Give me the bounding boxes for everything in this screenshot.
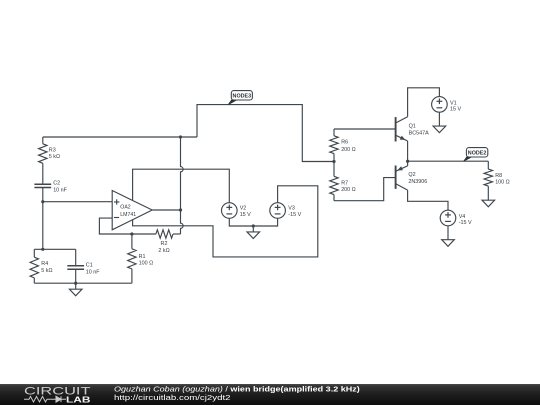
svg-text:100 Ω: 100 Ω: [495, 180, 510, 186]
svg-text:NODE3: NODE3: [233, 93, 252, 99]
svg-text:5 kΩ: 5 kΩ: [41, 268, 52, 274]
svg-text:V3: V3: [288, 205, 295, 211]
svg-text:NODE2: NODE2: [468, 150, 487, 156]
svg-text:BC547A: BC547A: [409, 130, 429, 136]
svg-text:2 kΩ: 2 kΩ: [158, 248, 169, 254]
svg-text:200 Ω: 200 Ω: [341, 147, 356, 153]
svg-text:15 V: 15 V: [450, 106, 461, 112]
svg-text:C2: C2: [53, 181, 60, 187]
svg-text:200 Ω: 200 Ω: [341, 187, 356, 193]
svg-text:100 Ω: 100 Ω: [139, 260, 154, 266]
svg-text:R3: R3: [49, 147, 56, 153]
svg-text:10 nF: 10 nF: [86, 269, 100, 275]
svg-text:R6: R6: [341, 140, 348, 146]
svg-text:R2: R2: [161, 241, 168, 247]
svg-text:5 kΩ: 5 kΩ: [49, 154, 60, 160]
svg-text:LAB: LAB: [66, 395, 91, 404]
svg-text:C1: C1: [86, 263, 93, 269]
svg-text:-15 V: -15 V: [459, 220, 472, 226]
svg-text:10 nF: 10 nF: [53, 187, 67, 193]
svg-text:R4: R4: [41, 261, 48, 267]
svg-text:15 V: 15 V: [240, 212, 251, 218]
svg-text:OA2: OA2: [120, 205, 130, 211]
svg-text:2N3906: 2N3906: [408, 179, 427, 185]
svg-text:LM741: LM741: [120, 212, 136, 218]
svg-text:-15 V: -15 V: [288, 212, 301, 218]
svg-text:Q2: Q2: [408, 172, 415, 178]
svg-text:R1: R1: [139, 254, 146, 260]
svg-text:V2: V2: [240, 205, 247, 211]
svg-text:Q1: Q1: [409, 124, 416, 130]
svg-text:http://circuitlab.com/cj2ydt2: http://circuitlab.com/cj2ydt2: [114, 393, 231, 401]
svg-text:R8: R8: [495, 173, 502, 179]
svg-text:R7: R7: [341, 180, 348, 186]
